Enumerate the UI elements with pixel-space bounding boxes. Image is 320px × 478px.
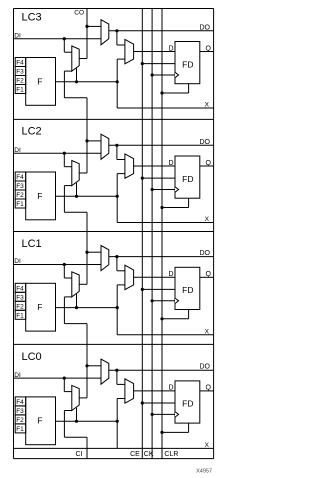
D mux (LC3) — [125, 39, 134, 63]
svg-text:F1: F1 — [16, 426, 24, 433]
input box F2 (LC2) — [15, 190, 26, 199]
wire carry-in step2 (LC2) — [63, 186, 65, 213]
junction DO branch (LC2) — [115, 144, 118, 147]
junction CLR tap (LC2) — [160, 206, 163, 209]
wire X line (LC2) — [117, 222, 213, 224]
flip-flop FD (LC3) — [175, 42, 200, 84]
wire D mux lower input (LC1) — [117, 284, 125, 286]
junction CK tap (LC0) — [151, 413, 154, 416]
wire carry-in step3 (LC3) — [64, 97, 87, 99]
svg-text:D: D — [168, 160, 173, 167]
wire CI vertical — [86, 437, 88, 458]
svg-text:F: F — [37, 76, 42, 86]
svg-text:F2: F2 — [16, 417, 24, 424]
svg-text:F: F — [37, 416, 42, 426]
wire DI drop (LC2) — [63, 153, 65, 167]
wire carry-in step2 (LC1) — [63, 297, 65, 324]
svg-text:F4: F4 — [16, 60, 24, 67]
outer frame bottom edge — [14, 458, 214, 460]
junction CK tap (LC2) — [151, 188, 154, 191]
input box F2 (LC1) — [15, 301, 26, 310]
svg-text:CE: CE — [130, 451, 140, 458]
wire X line (LC0) / label band top line — [14, 447, 214, 449]
svg-text:LC3: LC3 — [22, 12, 42, 24]
wire carry to DO mux input (LC3) — [87, 25, 101, 27]
wire into D mux top (LC1) — [117, 270, 125, 272]
wire F up to carry mux (LC3) — [76, 68, 78, 82]
svg-text:X: X — [205, 216, 210, 223]
junction CLR tap (LC3) — [160, 91, 163, 94]
svg-text:DO: DO — [200, 250, 211, 257]
wire CK to FD (LC2) — [152, 189, 175, 191]
junction CLR tap (LC0) — [160, 431, 163, 434]
DO mux (LC0) — [101, 359, 109, 384]
junction CK tap (LC1) — [151, 299, 154, 302]
wire CE to FD (LC1) — [142, 288, 175, 290]
outer frame left edge — [13, 9, 15, 459]
svg-text:FD: FD — [182, 399, 193, 409]
wire CE to FD (LC0) — [142, 402, 175, 404]
junction F at X vertical (LC1) — [116, 306, 119, 309]
svg-text:X: X — [205, 328, 210, 335]
junction CE tap (LC2) — [141, 177, 144, 180]
wire DO drop to D mux (LC3) — [116, 31, 118, 45]
wire DO drop to D mux (LC0) — [116, 370, 118, 384]
wire D line (LC2) — [134, 165, 175, 167]
D mux (LC1) — [125, 265, 134, 289]
LUT F (LC2) — [26, 172, 56, 220]
wire F/X vertical (LC0) — [116, 399, 118, 449]
wire DI line (LC0) — [14, 377, 102, 379]
svg-text:F3: F3 — [16, 183, 24, 190]
LUT F (LC3) — [26, 58, 56, 106]
wire D mux lower input (LC3) — [117, 58, 125, 60]
input box F4 (LC3) — [15, 58, 26, 67]
wire FD clear drop (LC3) — [188, 84, 190, 93]
svg-text:F4: F4 — [16, 174, 24, 181]
input box F4 (LC1) — [15, 283, 26, 292]
wire F output (LC0) — [56, 420, 118, 422]
input box F1 (LC3) — [15, 85, 26, 94]
wire D line (LC0) — [134, 390, 175, 392]
wire carry-in step3 (LC0) — [64, 436, 87, 438]
wire FD clear to CLR (LC1) — [162, 318, 189, 320]
wire DI line (LC3) — [14, 38, 102, 40]
junction DI branch (LC3) — [63, 37, 66, 40]
flip-flop FD (LC1) — [175, 267, 200, 309]
junction F to carry mux (LC3) — [75, 80, 78, 83]
wire carry vertical (LC2) — [86, 98, 88, 173]
svg-text:F1: F1 — [16, 313, 24, 320]
carry mux (LC2) — [72, 161, 79, 186]
clock input triangle (LC1) — [175, 298, 179, 303]
svg-text:FD: FD — [182, 59, 193, 69]
input box F3 (LC2) — [15, 181, 26, 190]
wire FD clear drop (LC1) — [188, 310, 190, 319]
clock input triangle (LC3) — [175, 72, 179, 77]
wire DO line (LC1) — [109, 256, 214, 258]
junction carry to DO mux (LC0) — [85, 364, 88, 367]
junction DO branch (LC3) — [115, 29, 118, 32]
wire carry-in step1 (LC1) — [64, 296, 71, 298]
svg-text:F1: F1 — [16, 87, 24, 94]
wire FD clear to CLR (LC3) — [162, 92, 189, 94]
junction CLR tap (LC1) — [160, 317, 163, 320]
wire DI drop (LC3) — [63, 39, 65, 53]
svg-text:X4957: X4957 — [196, 469, 212, 475]
input box F3 (LC1) — [15, 292, 26, 301]
wire CK to FD (LC0) — [152, 413, 175, 415]
LUT F (LC1) — [26, 283, 56, 331]
junction carry to DO mux (LC2) — [85, 139, 88, 142]
wire D mux lower input (LC2) — [117, 173, 125, 175]
svg-text:F4: F4 — [16, 399, 24, 406]
svg-text:F3: F3 — [16, 69, 24, 76]
wire into D mux top (LC3) — [117, 44, 125, 46]
svg-text:CO: CO — [74, 10, 84, 17]
input box F1 (LC2) — [15, 199, 26, 208]
wire carry to DO mux input (LC1) — [87, 251, 101, 253]
wire FD clear to CLR (LC2) — [162, 207, 189, 209]
wire DO line (LC2) — [109, 144, 214, 146]
svg-text:F2: F2 — [16, 192, 24, 199]
junction F at X vertical (LC2) — [116, 195, 119, 198]
svg-text:F4: F4 — [16, 286, 24, 293]
wire DI line (LC2) — [14, 152, 102, 154]
svg-text:FD: FD — [182, 174, 193, 184]
svg-text:F3: F3 — [16, 408, 24, 415]
wire carry-in step1 (LC3) — [64, 70, 71, 72]
wire carry-in step3 (LC2) — [64, 211, 87, 213]
wire carry mux output (LC3) — [79, 58, 87, 60]
input box F3 (LC0) — [15, 406, 26, 415]
wire carry vertical (LC1) — [86, 212, 88, 284]
wire carry-in step1 (LC0) — [64, 410, 71, 412]
wire CK to FD (LC3) — [152, 74, 175, 76]
DO mux (LC3) — [101, 20, 109, 45]
svg-text:LC0: LC0 — [22, 351, 42, 363]
svg-text:F3: F3 — [16, 295, 24, 302]
carry mux (LC1) — [72, 272, 79, 297]
wire into D mux top (LC0) — [117, 383, 125, 385]
wire DI drop (LC1) — [63, 265, 65, 279]
clock input triangle (LC2) — [175, 187, 179, 192]
wire F output (LC3) — [56, 81, 118, 83]
wire F output (LC2) — [56, 195, 118, 197]
outer frame right edge — [213, 9, 215, 459]
junction CE tap (LC3) — [141, 62, 144, 65]
clock input triangle (LC0) — [175, 412, 179, 417]
wire DO drop to D mux (LC2) — [116, 145, 118, 159]
net CLR vertical line — [161, 9, 163, 459]
junction carry to DO mux (LC3) — [85, 25, 88, 28]
svg-text:FD: FD — [182, 285, 193, 295]
wire into D mux top (LC2) — [117, 159, 125, 161]
wire CK to FD (LC1) — [152, 300, 175, 302]
wire Q line (LC2) — [200, 165, 214, 167]
wire Q line (LC3) — [200, 51, 214, 53]
wire DI to carry mux (LC1) — [64, 277, 72, 279]
wire carry-in step2 (LC0) — [63, 411, 65, 438]
wire FD clear to CLR (LC0) — [162, 431, 189, 433]
svg-text:CLR: CLR — [164, 451, 178, 458]
wire carry vertical (LC0) — [86, 324, 88, 398]
wire FD clear drop (LC0) — [188, 423, 190, 432]
wire Q line (LC0) — [200, 390, 214, 392]
junction CK tap (LC3) — [151, 73, 154, 76]
wire carry-in step1 (LC2) — [64, 185, 71, 187]
wire DI to carry mux (LC2) — [64, 166, 72, 168]
wire DI to carry mux (LC3) — [64, 51, 72, 53]
wire F output (LC1) — [56, 307, 118, 309]
cell boundary line 3 — [14, 343, 214, 345]
junction DI branch (LC0) — [63, 377, 66, 380]
wire DI to carry mux (LC0) — [64, 391, 72, 393]
junction DI branch (LC2) — [63, 152, 66, 155]
input box F3 (LC3) — [15, 67, 26, 76]
input box F1 (LC0) — [15, 424, 26, 433]
carry mux (LC3) — [72, 46, 79, 71]
svg-text:LC2: LC2 — [22, 126, 42, 138]
svg-text:D: D — [168, 271, 173, 278]
D mux (LC2) — [125, 154, 134, 178]
wire Q line (LC1) — [200, 276, 214, 278]
svg-text:DO: DO — [200, 139, 211, 146]
svg-text:D: D — [168, 45, 173, 52]
junction DO branch (LC0) — [115, 369, 118, 372]
junction F to carry mux (LC1) — [75, 306, 78, 309]
input box F4 (LC2) — [15, 172, 26, 181]
wire D mux lower input (LC0) — [117, 398, 125, 400]
wire D line (LC3) — [134, 51, 175, 53]
svg-text:F: F — [37, 191, 42, 201]
wire DI line (LC1) — [14, 264, 102, 266]
junction F to carry mux (LC0) — [75, 420, 78, 423]
wire CE to FD (LC3) — [142, 63, 175, 65]
wire carry vertical (LC3) — [86, 9, 88, 59]
wire F up to carry mux (LC2) — [76, 183, 78, 197]
input box F4 (LC0) — [15, 397, 26, 406]
wire carry-in step3 (LC1) — [64, 323, 87, 325]
junction F at X vertical (LC3) — [116, 80, 119, 83]
junction DI branch (LC1) — [63, 263, 66, 266]
wire DO line (LC3) — [109, 30, 214, 32]
input box F2 (LC3) — [15, 76, 26, 85]
outer frame top edge — [14, 8, 214, 10]
cell boundary line 2 — [14, 231, 214, 233]
junction CE tap (LC1) — [141, 288, 144, 291]
wire carry mux output (LC1) — [79, 283, 87, 285]
net CK vertical line — [151, 9, 153, 459]
flip-flop FD (LC0) — [175, 381, 200, 423]
svg-text:D: D — [168, 385, 173, 392]
svg-text:F1: F1 — [16, 201, 24, 208]
wire DO line (LC0) — [109, 369, 214, 371]
svg-text:F2: F2 — [16, 304, 24, 311]
svg-text:DO: DO — [200, 24, 211, 31]
svg-text:X: X — [205, 442, 210, 449]
svg-text:CI: CI — [76, 451, 83, 458]
wire carry-in step2 (LC3) — [63, 71, 65, 98]
wire F up to carry mux (LC0) — [76, 408, 78, 422]
junction DO branch (LC1) — [115, 255, 118, 258]
cell boundary line 1 — [14, 118, 214, 120]
input box F1 (LC1) — [15, 310, 26, 319]
junction F at X vertical (LC0) — [116, 420, 119, 423]
wire carry to DO mux input (LC0) — [87, 365, 101, 367]
wire carry mux output (LC2) — [79, 172, 87, 174]
wire carry mux output (LC0) — [79, 397, 87, 399]
svg-text:CK: CK — [144, 451, 154, 458]
wire DI drop (LC0) — [63, 378, 65, 392]
wire carry to DO mux input (LC2) — [87, 140, 101, 142]
wire D line (LC1) — [134, 276, 175, 278]
wire CE to FD (LC2) — [142, 177, 175, 179]
wire X line (LC1) — [117, 334, 213, 336]
wire F up to carry mux (LC1) — [76, 294, 78, 308]
svg-text:DO: DO — [200, 364, 211, 371]
DO mux (LC1) — [101, 246, 109, 271]
wire FD clear drop (LC2) — [188, 198, 190, 207]
junction CE tap (LC0) — [141, 401, 144, 404]
input box F2 (LC0) — [15, 415, 26, 424]
wire DO drop to D mux (LC1) — [116, 257, 118, 271]
svg-text:F2: F2 — [16, 78, 24, 85]
wire F/X vertical (LC2) — [116, 174, 118, 223]
wire F/X vertical (LC1) — [116, 285, 118, 335]
junction F to carry mux (LC2) — [75, 195, 78, 198]
DO mux (LC2) — [101, 134, 109, 159]
carry mux (LC0) — [72, 385, 79, 410]
wire X line (LC3) — [117, 107, 213, 109]
svg-text:F: F — [37, 302, 42, 312]
wire F/X vertical (LC3) — [116, 59, 118, 108]
D mux (LC0) — [125, 379, 134, 403]
svg-text:X: X — [205, 102, 210, 109]
junction carry to DO mux (LC1) — [85, 251, 88, 254]
LUT F (LC0) — [26, 397, 56, 445]
net CE vertical line — [141, 9, 143, 459]
flip-flop FD (LC2) — [175, 156, 200, 198]
svg-text:LC1: LC1 — [22, 238, 42, 250]
